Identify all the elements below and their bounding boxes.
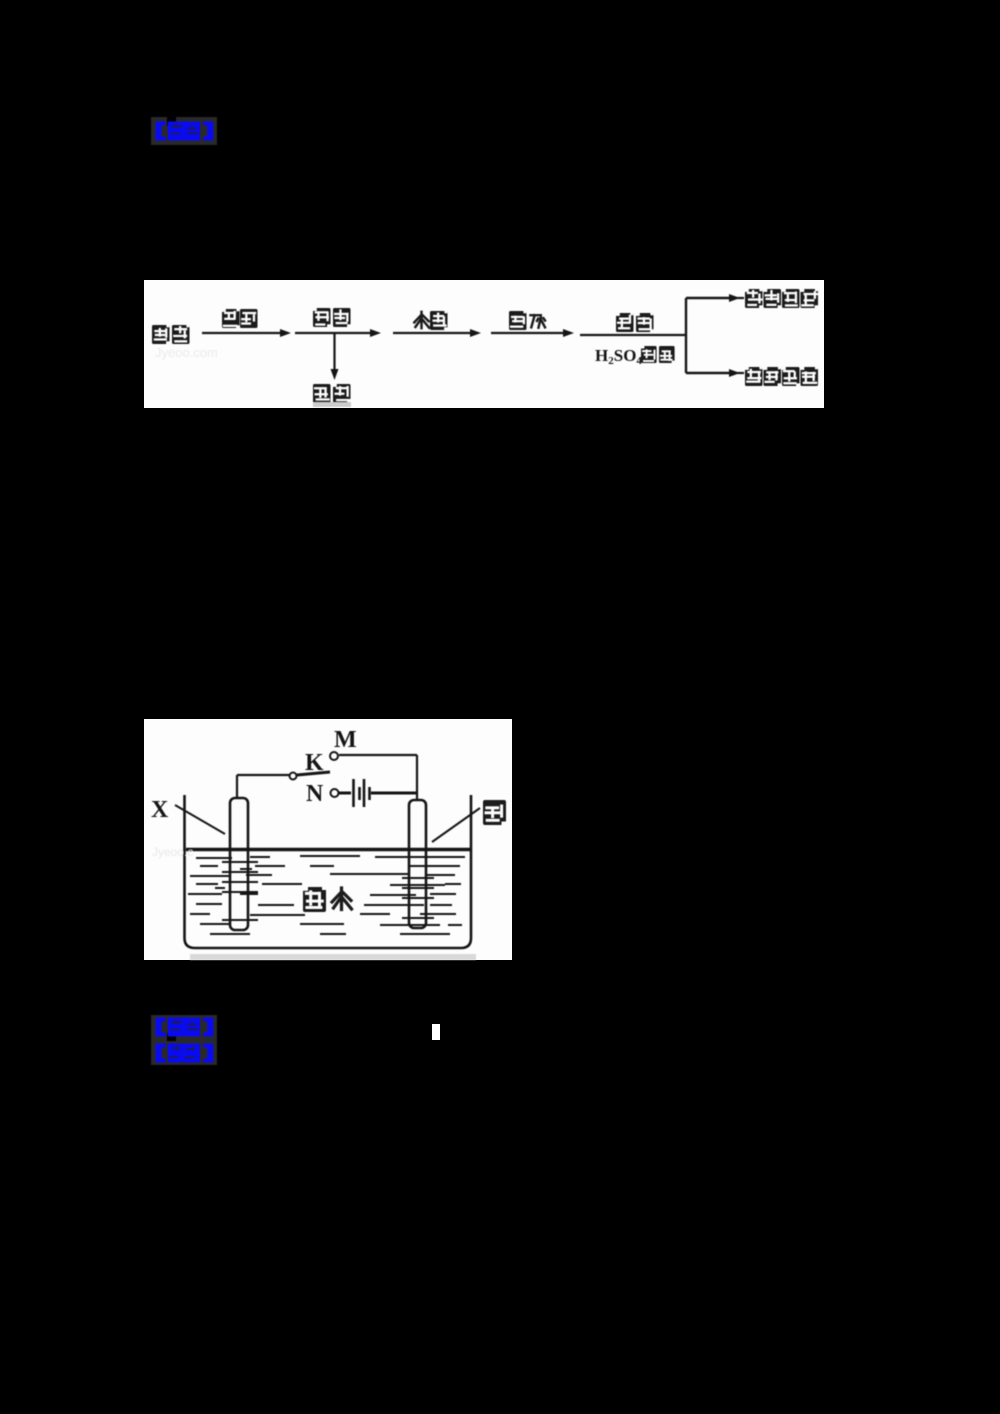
svg-text:Jyeoo.c: Jyeoo.c — [152, 845, 193, 859]
svg-text:X: X — [151, 797, 169, 823]
svg-text:M: M — [334, 727, 357, 753]
svg-text:N: N — [306, 781, 324, 807]
svg-text:Jyeoo.com: Jyeoo.com — [155, 345, 218, 360]
svg-text:H2SO4: H2SO4 — [595, 346, 642, 367]
